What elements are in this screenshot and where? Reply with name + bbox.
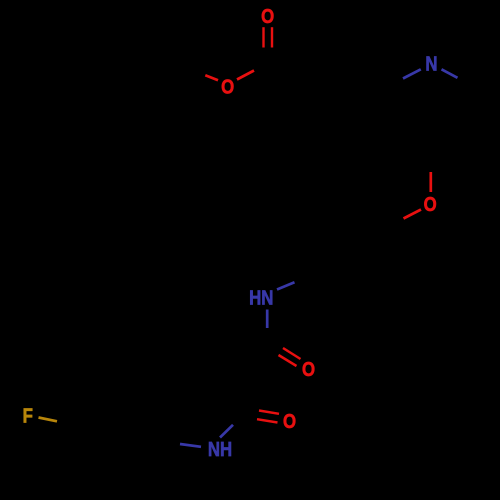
svg-text:O: O xyxy=(221,75,234,98)
wire quinoline N left bond xyxy=(403,69,421,78)
wire ether O down-left bond xyxy=(404,210,422,219)
wire oxindole C=O double bond lower line xyxy=(257,419,278,422)
wire methyl to ester O bond xyxy=(205,75,218,80)
svg-text:O: O xyxy=(302,358,315,381)
wire ester O to carbonyl C bond xyxy=(237,71,254,80)
svg-text:F: F xyxy=(23,404,33,427)
wire amide HN down bond xyxy=(266,310,269,329)
wire oxindole NH up-right bond xyxy=(220,425,233,438)
wire F to ring bond xyxy=(39,418,58,422)
svg-text:O: O xyxy=(261,4,274,27)
wire amide HN to aryl bond xyxy=(277,282,295,289)
wire amide C=O double bond lower line xyxy=(279,355,297,366)
wire oxindole NH left bond xyxy=(180,444,201,447)
wire quinoline N right bond xyxy=(442,69,458,78)
wire ether O up bond xyxy=(429,172,432,192)
wire ester C=O double bond right line xyxy=(271,27,273,47)
svg-text:HN: HN xyxy=(249,286,273,309)
wire oxindole C=O double bond upper line xyxy=(259,411,279,414)
svg-text:NH: NH xyxy=(208,437,232,460)
svg-text:N: N xyxy=(425,52,437,75)
svg-text:O: O xyxy=(283,410,296,433)
wire ester C=O double bond left line xyxy=(262,27,264,47)
wire amide C=O double bond upper line xyxy=(283,348,301,359)
svg-text:O: O xyxy=(424,193,437,216)
